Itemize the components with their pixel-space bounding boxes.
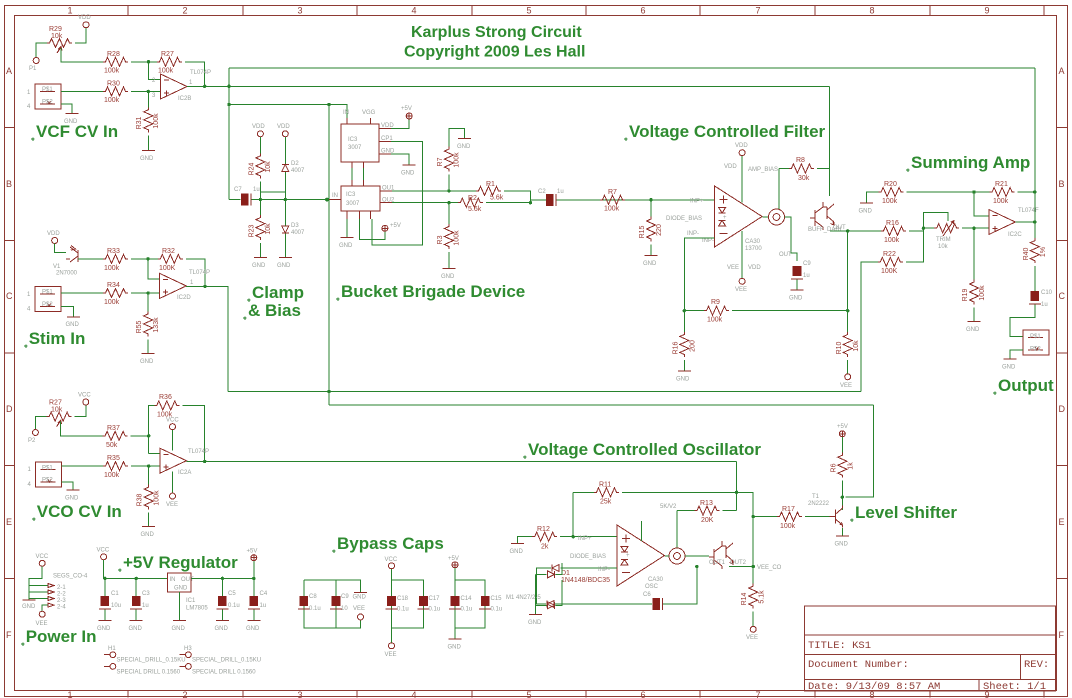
supply +5V bbox=[382, 225, 388, 231]
wire bus down bbox=[1034, 68, 1036, 192]
ground bbox=[860, 202, 873, 204]
svg-text:100k: 100k bbox=[979, 285, 986, 301]
svg-text:DIODE_BIAS: DIODE_BIAS bbox=[666, 216, 702, 222]
resistor R28 bbox=[103, 57, 128, 66]
diode D3 bbox=[282, 226, 289, 233]
wire bbox=[685, 555, 709, 557]
OTA U2 bbox=[715, 186, 763, 247]
svg-text:10k: 10k bbox=[51, 407, 63, 414]
wire VEE stub bbox=[741, 231, 743, 278]
svg-text:GND: GND bbox=[966, 327, 980, 333]
svg-text:VEE: VEE bbox=[746, 635, 758, 641]
svg-text:2-4: 2-4 bbox=[57, 605, 66, 611]
svg-text:25k: 25k bbox=[600, 499, 612, 506]
row letters left bbox=[6, 66, 13, 640]
wire bbox=[259, 137, 261, 153]
svg-text:1N4148/BDC35: 1N4148/BDC35 bbox=[561, 577, 610, 584]
svg-text:GND: GND bbox=[643, 261, 657, 267]
wire to non-inverting input bbox=[131, 90, 161, 92]
wire to VEE bbox=[391, 628, 393, 643]
svg-text:+5V: +5V bbox=[837, 424, 848, 430]
svg-text:V1: V1 bbox=[53, 264, 61, 270]
supply VCC bbox=[389, 563, 395, 569]
svg-text:D: D bbox=[1059, 404, 1066, 414]
svg-text:Voltage Controlled Oscillator: Voltage Controlled Oscillator bbox=[528, 440, 761, 459]
svg-text:R55: R55 bbox=[136, 320, 143, 333]
wire bbox=[732, 231, 848, 311]
svg-text:3007: 3007 bbox=[348, 145, 362, 151]
OTA output circles bbox=[769, 209, 785, 225]
wire out1 bbox=[392, 190, 476, 192]
supply VEE bbox=[739, 278, 745, 284]
svg-text:6: 6 bbox=[640, 6, 645, 16]
wire R9 feedback bbox=[684, 238, 714, 311]
wire bbox=[535, 574, 537, 614]
resistor R14 bbox=[752, 567, 754, 584]
group3 loop bbox=[455, 568, 485, 628]
svg-text:Document Number:: Document Number: bbox=[808, 659, 909, 671]
svg-text:1u: 1u bbox=[253, 187, 260, 193]
svg-text:REV:: REV: bbox=[1024, 659, 1049, 671]
ground stub of connector bbox=[61, 306, 74, 316]
svg-text:SPECIAL_DRILL_0.15KU: SPECIAL_DRILL_0.15KU bbox=[117, 658, 186, 664]
wire bbox=[259, 200, 261, 216]
ground bbox=[442, 268, 455, 270]
svg-text:VEE: VEE bbox=[727, 265, 739, 271]
wire to inverting input bbox=[974, 192, 989, 216]
svg-text:2-1: 2-1 bbox=[57, 585, 66, 591]
svg-text:IC2B: IC2B bbox=[178, 96, 191, 102]
frame row ticks right bbox=[1057, 128, 1068, 579]
svg-text:R10: R10 bbox=[836, 341, 843, 354]
svg-text:GND: GND bbox=[141, 532, 155, 538]
svg-text:E: E bbox=[1059, 517, 1065, 527]
svg-text:VGG: VGG bbox=[362, 110, 376, 116]
resistor R10 bbox=[847, 311, 849, 332]
wire bbox=[284, 200, 286, 226]
svg-text:GND: GND bbox=[859, 209, 873, 215]
wire bbox=[36, 43, 47, 58]
svg-text:R28: R28 bbox=[107, 51, 120, 58]
svg-text:Copyright 2009 Les Hall: Copyright 2009 Les Hall bbox=[404, 44, 585, 61]
svg-text:5: 5 bbox=[526, 6, 531, 16]
svg-text:7: 7 bbox=[755, 690, 760, 698]
svg-text:100k: 100k bbox=[882, 198, 898, 205]
svg-text:R32: R32 bbox=[162, 248, 175, 255]
svg-text:10k: 10k bbox=[853, 340, 860, 352]
resistor R17 bbox=[777, 512, 802, 521]
capacitor C2 bbox=[546, 194, 556, 206]
resistor R3 bbox=[448, 203, 450, 224]
svg-text:4: 4 bbox=[27, 104, 31, 110]
resistor R12 bbox=[532, 532, 557, 541]
svg-text:OUT2: OUT2 bbox=[730, 560, 747, 566]
svg-text:DIODE_BIAS: DIODE_BIAS bbox=[570, 554, 606, 560]
connector J2 bbox=[1023, 330, 1049, 355]
svg-text:GND: GND bbox=[528, 620, 542, 626]
svg-text:VDD: VDD bbox=[748, 265, 761, 271]
supply VDD bbox=[257, 131, 263, 137]
wire buffer top bbox=[829, 169, 831, 197]
svg-text:F: F bbox=[1059, 630, 1065, 640]
wire R22 left to VCO line bbox=[861, 262, 878, 392]
svg-text:10k: 10k bbox=[265, 223, 272, 235]
svg-text:C: C bbox=[1059, 291, 1066, 301]
svg-text:VDD: VDD bbox=[381, 123, 394, 129]
wire bbox=[147, 339, 149, 353]
svg-text:C6: C6 bbox=[643, 592, 651, 598]
ground bbox=[279, 257, 292, 259]
capacitor C4 bbox=[253, 578, 255, 596]
supply +5V bbox=[452, 562, 458, 568]
svg-text:100k: 100k bbox=[454, 230, 461, 246]
resistor R16v bbox=[683, 311, 685, 332]
supply VCC bbox=[101, 554, 107, 560]
svg-text:R35: R35 bbox=[107, 455, 120, 462]
resistor R7v bbox=[449, 129, 465, 147]
wire top bus bbox=[229, 67, 1035, 69]
svg-text:2N7000: 2N7000 bbox=[56, 271, 78, 277]
wire to inverting input bbox=[149, 62, 161, 80]
ground bbox=[511, 543, 524, 545]
regulator IC1 bbox=[168, 573, 192, 592]
capacitor C9 bbox=[791, 266, 803, 279]
wire to non-inverting input bbox=[131, 292, 160, 294]
wire bbox=[147, 91, 149, 107]
supply VDD bbox=[739, 150, 745, 156]
svg-text:2: 2 bbox=[182, 6, 187, 16]
potentiometer R29 bbox=[47, 39, 72, 48]
wire bbox=[252, 199, 330, 201]
supply VEE stub bbox=[172, 472, 174, 493]
supply VEE bbox=[750, 626, 756, 632]
op-amp IC2C bbox=[989, 210, 1016, 235]
svg-text:Stim In: Stim In bbox=[29, 329, 86, 348]
svg-text:5.1k: 5.1k bbox=[759, 590, 766, 604]
wire bbox=[486, 202, 531, 204]
svg-text:Power In: Power In bbox=[26, 627, 97, 646]
svg-text:OUT: OUT bbox=[833, 225, 846, 231]
connector X2 bbox=[35, 286, 61, 311]
wire bbox=[841, 481, 843, 510]
capacitor C7 bbox=[241, 194, 251, 206]
svg-text:R37: R37 bbox=[107, 425, 120, 432]
connector X1 bbox=[35, 84, 61, 109]
buffer transistors Q3 bbox=[810, 202, 834, 230]
wire to inverting input bbox=[148, 259, 160, 279]
op-amp IC2B bbox=[161, 74, 188, 99]
wire bbox=[841, 437, 843, 453]
resistor R34 bbox=[103, 289, 128, 298]
wire long vertical bbox=[328, 105, 330, 406]
ground bbox=[142, 150, 155, 152]
buffer transistors Q4 bbox=[709, 541, 733, 569]
svg-text:P$2: P$2 bbox=[42, 478, 53, 484]
svg-text:R6: R6 bbox=[831, 463, 838, 472]
svg-text:+5V: +5V bbox=[247, 549, 258, 555]
trimmer R25 bbox=[934, 224, 959, 233]
svg-text:GND: GND bbox=[97, 626, 111, 632]
IC3B BBD lower bbox=[341, 186, 380, 211]
svg-text:GND: GND bbox=[252, 263, 266, 269]
wire bbox=[259, 243, 261, 257]
wire R13 to output node bbox=[676, 511, 678, 549]
wire bbox=[723, 510, 737, 512]
svg-text:100k: 100k bbox=[104, 472, 120, 479]
svg-text:VCC: VCC bbox=[36, 554, 49, 560]
svg-text:Karplus Strong Circuit: Karplus Strong Circuit bbox=[411, 24, 582, 41]
svg-text:3: 3 bbox=[297, 6, 302, 16]
svg-text:GND: GND bbox=[676, 377, 690, 383]
svg-text:AMP_BIAS: AMP_BIAS bbox=[748, 167, 778, 173]
supply +5V bbox=[839, 431, 845, 437]
wire bbox=[974, 191, 1035, 193]
wire bbox=[131, 258, 158, 260]
wire bbox=[78, 258, 103, 260]
svg-text:R34: R34 bbox=[107, 282, 120, 289]
ground lower bbox=[346, 219, 348, 237]
wire bbox=[504, 191, 530, 203]
svg-text:100k: 100k bbox=[154, 490, 161, 506]
wire bbox=[284, 172, 286, 200]
title block bbox=[805, 606, 1056, 693]
resistor R37 bbox=[103, 431, 128, 440]
wire bbox=[537, 568, 551, 604]
svg-text:R27: R27 bbox=[161, 51, 174, 58]
svg-text:C3: C3 bbox=[142, 591, 150, 597]
wire to +5V bbox=[391, 119, 409, 128]
wire bbox=[600, 199, 715, 201]
svg-text:GND: GND bbox=[65, 496, 79, 502]
svg-text:R40: R40 bbox=[1023, 247, 1030, 260]
svg-text:R38: R38 bbox=[137, 493, 144, 506]
wire bbox=[973, 308, 975, 322]
op-amp IC2D bbox=[160, 273, 187, 298]
transistor V1 bbox=[66, 246, 78, 263]
resistor R16h bbox=[881, 226, 906, 235]
wire op output down to VCO row bbox=[186, 286, 228, 391]
ground bbox=[142, 352, 155, 354]
wire to ground bbox=[454, 628, 456, 638]
wire R20 to gnd bbox=[867, 192, 879, 203]
svg-text:INP+: INP+ bbox=[578, 536, 592, 542]
svg-text:D2: D2 bbox=[291, 161, 299, 167]
svg-text:VCC: VCC bbox=[166, 418, 179, 424]
svg-text:GND: GND bbox=[22, 604, 36, 610]
svg-text:C2: C2 bbox=[538, 189, 546, 195]
wire emitter to ground bbox=[841, 528, 843, 536]
wire bbox=[805, 516, 830, 518]
wire bbox=[147, 293, 149, 311]
svg-text:GND: GND bbox=[215, 626, 229, 632]
svg-text:CA30: CA30 bbox=[745, 239, 761, 245]
capacitor C17 bbox=[418, 596, 430, 609]
svg-text:IN: IN bbox=[170, 577, 176, 583]
resistor R6 bbox=[838, 453, 847, 478]
svg-text:C18: C18 bbox=[397, 596, 409, 602]
wire stim row bbox=[228, 391, 861, 393]
svg-text:OUT: OUT bbox=[779, 252, 792, 258]
svg-text:6: 6 bbox=[640, 690, 645, 698]
svg-text:IC1: IC1 bbox=[186, 598, 196, 604]
svg-text:5: 5 bbox=[526, 690, 531, 698]
svg-text:1%: 1% bbox=[1040, 247, 1047, 257]
svg-text:4: 4 bbox=[27, 307, 31, 313]
svg-text:P$2: P$2 bbox=[42, 100, 53, 106]
svg-text:5.6k: 5.6k bbox=[490, 195, 504, 202]
svg-text:R16: R16 bbox=[886, 220, 899, 227]
ground bbox=[529, 614, 542, 616]
regulator ground bbox=[178, 592, 180, 620]
wire bus vertical bbox=[228, 68, 230, 200]
svg-text:GND: GND bbox=[277, 263, 291, 269]
svg-text:P$2: P$2 bbox=[1030, 347, 1041, 353]
wire bbox=[923, 227, 988, 229]
capacitor C12 bbox=[330, 596, 342, 609]
svg-text:R1: R1 bbox=[486, 181, 495, 188]
svg-text:3007: 3007 bbox=[346, 201, 360, 207]
wire to ground bbox=[391, 154, 409, 165]
wire VCO line down bbox=[736, 461, 738, 510]
resistor R55 bbox=[144, 311, 153, 336]
svg-text:R29: R29 bbox=[49, 26, 62, 33]
svg-text:C15: C15 bbox=[491, 596, 503, 602]
wire bbox=[55, 244, 66, 253]
svg-text:0.1u: 0.1u bbox=[491, 607, 503, 613]
resistor R15 bbox=[650, 200, 652, 217]
wire to non-inverting input bbox=[131, 465, 160, 467]
wire bbox=[284, 137, 286, 164]
ground bbox=[645, 255, 658, 257]
wire bbox=[259, 181, 261, 199]
svg-text:D: D bbox=[6, 404, 13, 414]
ground bbox=[142, 526, 155, 528]
svg-text:VEE: VEE bbox=[840, 383, 852, 389]
resistor R35 bbox=[103, 462, 128, 471]
svg-text:H1: H1 bbox=[108, 646, 116, 652]
wire output to cap bbox=[785, 217, 798, 261]
svg-text:R24: R24 bbox=[249, 162, 256, 175]
svg-text:GND: GND bbox=[66, 322, 80, 328]
ground bbox=[254, 257, 267, 259]
svg-text:P$1: P$1 bbox=[1030, 334, 1041, 340]
svg-text:GND: GND bbox=[140, 156, 154, 162]
svg-text:H3: H3 bbox=[184, 646, 192, 652]
svg-text:4007: 4007 bbox=[291, 230, 305, 236]
svg-text:+5V: +5V bbox=[401, 106, 412, 112]
svg-text:IN: IN bbox=[343, 110, 349, 116]
svg-text:R21: R21 bbox=[995, 181, 1008, 188]
svg-text:GND: GND bbox=[441, 274, 455, 280]
wire bbox=[75, 405, 86, 416]
frame row ticks left bbox=[5, 128, 15, 579]
svg-text:10: 10 bbox=[341, 606, 348, 612]
wire bbox=[148, 513, 150, 526]
svg-text:GND: GND bbox=[140, 359, 154, 365]
wire feedback bbox=[185, 62, 205, 87]
svg-text:2-3: 2-3 bbox=[57, 598, 66, 604]
svg-text:5.6k: 5.6k bbox=[468, 206, 482, 213]
svg-text:IC3: IC3 bbox=[348, 137, 358, 143]
svg-text:0.1u: 0.1u bbox=[228, 603, 240, 609]
svg-text:VEE_CO: VEE_CO bbox=[757, 565, 782, 571]
svg-text:Sheet: 1/1: Sheet: 1/1 bbox=[983, 681, 1046, 693]
wire R8 left drop bbox=[778, 169, 780, 209]
wire clock loop bbox=[372, 141, 423, 244]
frame column ticks bottom bbox=[128, 691, 1044, 698]
wire bbox=[1034, 266, 1036, 291]
ground bbox=[968, 321, 981, 323]
svg-text:R22: R22 bbox=[883, 251, 896, 258]
wire base bbox=[753, 516, 777, 518]
svg-text:100k: 100k bbox=[104, 265, 120, 272]
svg-text:30k: 30k bbox=[798, 175, 810, 182]
svg-text:VCC: VCC bbox=[97, 548, 110, 554]
svg-text:GND: GND bbox=[789, 296, 803, 302]
wire wiper bbox=[61, 48, 103, 62]
svg-text:R11: R11 bbox=[599, 482, 611, 489]
resistor R23 bbox=[256, 215, 265, 240]
svg-text:C5: C5 bbox=[228, 591, 236, 597]
supply VDD bbox=[282, 131, 288, 137]
svg-text:INP-: INP- bbox=[702, 238, 714, 244]
svg-text:OSC: OSC bbox=[645, 584, 659, 590]
ground bbox=[23, 599, 36, 601]
svg-text:100k: 100k bbox=[604, 206, 620, 213]
supply VDD bbox=[52, 238, 58, 244]
wire BBD input top bbox=[229, 105, 347, 125]
wire to output connector bbox=[1010, 305, 1035, 337]
svg-text:TITLE: KS1: TITLE: KS1 bbox=[808, 640, 871, 652]
wire bbox=[131, 61, 157, 63]
capacitor C5 bbox=[221, 578, 223, 596]
svg-text:1: 1 bbox=[67, 6, 72, 16]
svg-text:VCO CV In: VCO CV In bbox=[37, 502, 122, 521]
wire bbox=[530, 199, 546, 201]
wire bbox=[448, 175, 450, 191]
svg-text:VDD: VDD bbox=[78, 15, 91, 21]
svg-text:10k: 10k bbox=[265, 161, 272, 173]
svg-text:VDD: VDD bbox=[735, 143, 748, 149]
resistor R24 bbox=[256, 153, 265, 178]
svg-text:VDD: VDD bbox=[252, 124, 265, 130]
svg-text:P1: P1 bbox=[29, 66, 37, 72]
OTA U3 bbox=[617, 525, 665, 586]
wire op output bbox=[187, 85, 830, 87]
wire feedback bbox=[149, 405, 205, 461]
svg-text:R7: R7 bbox=[437, 157, 444, 166]
svg-text:1u: 1u bbox=[557, 189, 564, 195]
wire trimmer loop bbox=[923, 213, 948, 229]
wire output down bbox=[1034, 222, 1036, 238]
svg-text:P$1: P$1 bbox=[42, 466, 53, 472]
ground stub of connector bbox=[61, 482, 73, 490]
svg-text:100k: 100k bbox=[104, 97, 120, 104]
svg-text:Date: 9/13/09 8:57 AM: Date: 9/13/09 8:57 AM bbox=[808, 681, 940, 693]
svg-text:SPECIAL DRILL 0.1560: SPECIAL DRILL 0.1560 bbox=[117, 670, 181, 676]
svg-text:F: F bbox=[6, 630, 12, 640]
wire bbox=[191, 561, 254, 578]
wire bbox=[448, 252, 450, 268]
wire bbox=[650, 245, 652, 256]
diode D4 bbox=[547, 601, 554, 608]
resistor R7 bbox=[600, 195, 625, 204]
svg-text:IN: IN bbox=[332, 193, 338, 199]
svg-text:R30: R30 bbox=[107, 81, 120, 88]
svg-text:SPECIAL_DRILL_0.15KU: SPECIAL_DRILL_0.15KU bbox=[192, 658, 261, 664]
svg-text:GND: GND bbox=[457, 144, 471, 150]
wire R8 loop bbox=[829, 86, 831, 168]
